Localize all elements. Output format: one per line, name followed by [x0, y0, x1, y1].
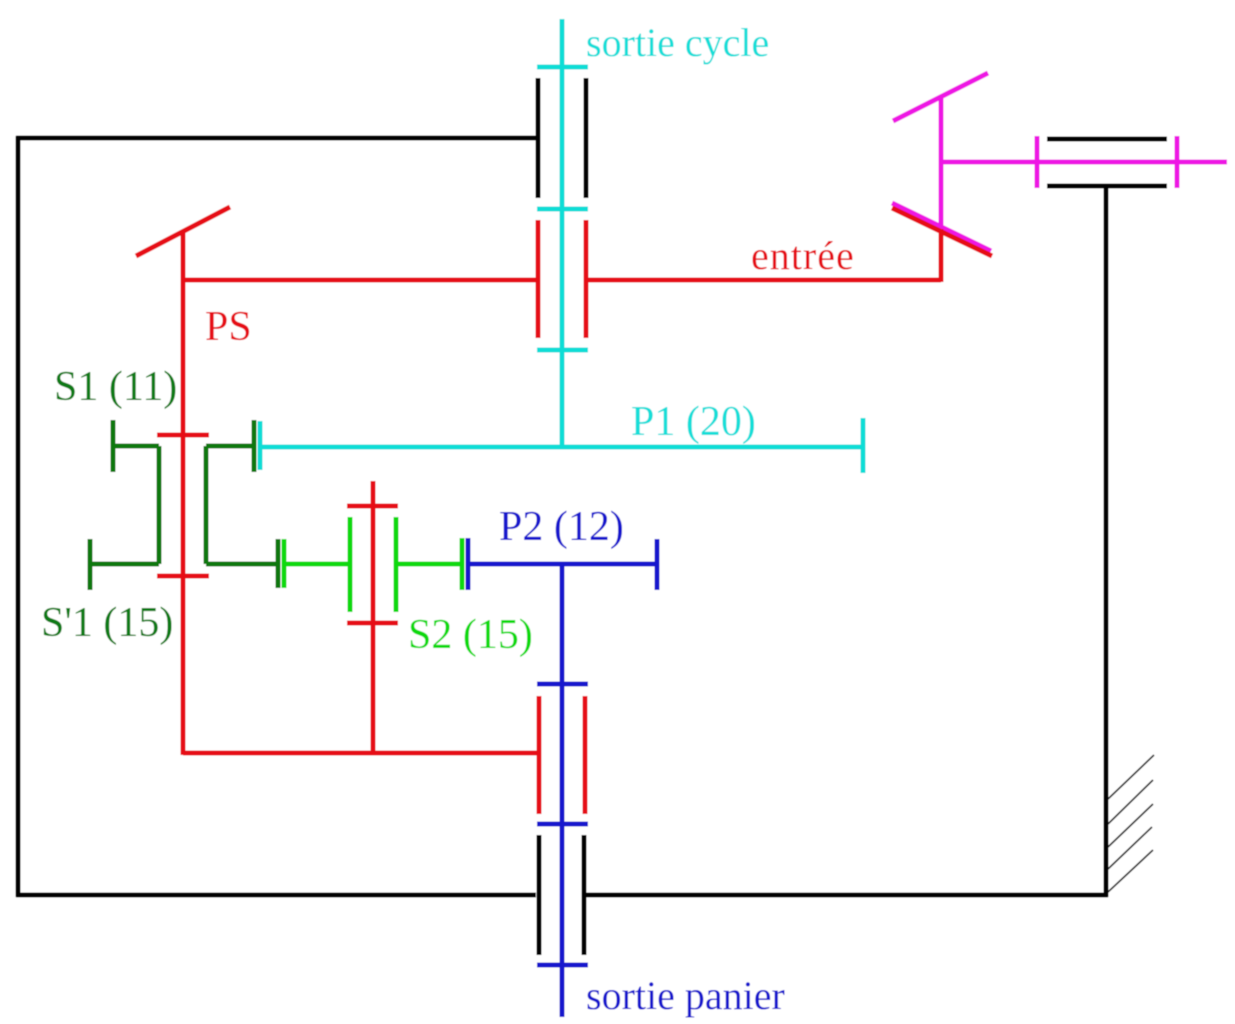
frame housing bottom wall right segment [586, 893, 1108, 898]
PS gear tick upper [157, 433, 209, 438]
red input shaft right segment (clutch to bevel) [586, 278, 941, 283]
shaft sortie panier (blue vertical) [560, 564, 565, 1017]
svg-text:sortie cycle: sortie cycle [586, 20, 769, 65]
red clutch right line on cycle shaft [584, 220, 589, 338]
ring side hub vertical [204, 446, 209, 564]
frame housing top wall [16, 136, 537, 141]
bevel lower slash (red diagonal) [892, 208, 992, 256]
black bearing left line on panier shaft [537, 835, 542, 955]
cyan collar tick middle [537, 207, 588, 212]
planet arm P1 (cyan horizontal) [260, 445, 863, 450]
svg-text:PS: PS [205, 304, 252, 350]
ring side lower tooth tick [276, 539, 281, 588]
frame housing right wall [1104, 186, 1109, 897]
P2 right end tick [655, 539, 660, 590]
ring side S1 upper arm [206, 444, 254, 449]
planet arm P2 (blue horizontal) [468, 562, 657, 567]
red input shaft left segment (PS to clutch) [181, 278, 538, 283]
black bearing right line on cycle shaft [584, 78, 589, 198]
sun gear S'1 tooth tick [88, 539, 93, 590]
bevel shaft tick right (magenta) [1175, 136, 1180, 188]
S2 shaft vertical (red) [371, 481, 376, 755]
S2 shaft tick upper (red) [347, 504, 398, 509]
sun gear S1 upper arm [113, 444, 159, 449]
blue collar tick lower [537, 963, 588, 968]
svg-text:P1 (20): P1 (20) [631, 399, 756, 445]
red clutch left line on panier shaft [537, 696, 542, 814]
black bearing right line on panier shaft [582, 835, 587, 955]
svg-text:P2 (12): P2 (12) [499, 504, 624, 550]
red carrier bottom arm [183, 751, 537, 756]
bevel top slash (magenta diagonal) [893, 73, 988, 121]
bevel shaft tick left (magenta) [1035, 136, 1040, 188]
black bearing left line on cycle shaft [536, 78, 541, 198]
shaft sortie cycle (cyan vertical) [560, 19, 565, 447]
frame housing left wall [16, 136, 21, 897]
PS carrier vertical shaft (red) [181, 233, 186, 755]
red clutch left line on cycle shaft [536, 220, 541, 338]
P1 right end tick [861, 418, 866, 473]
svg-text:entrée: entrée [751, 233, 855, 278]
ring side lower arm [206, 562, 278, 567]
PS gear tick lower [157, 574, 209, 579]
bevel input vertical shaft (magenta) [939, 97, 944, 225]
blue collar tick middle [537, 822, 588, 827]
frame housing bottom wall left segment [16, 893, 536, 898]
cyan collar tick lower [537, 348, 588, 353]
PS bevel slash (red diagonal) [136, 207, 230, 256]
P1 hub tick (cyan) [258, 421, 263, 470]
S2 arm left segment (bright green) [284, 562, 348, 567]
ground hatching [1108, 755, 1154, 892]
ring side S1 tooth tick [252, 420, 257, 472]
bevel lower slash (magenta diagonal) [892, 203, 991, 251]
S2 wheel left line [348, 517, 353, 612]
S2 wheel right line [394, 517, 399, 612]
red clutch right line on panier shaft [583, 696, 588, 814]
svg-text:sortie panier: sortie panier [586, 973, 785, 1018]
S2 hub tick (bright green) [282, 539, 287, 588]
sun gear S1 tooth tick [111, 420, 116, 472]
P2 hub tick (blue) [466, 538, 471, 590]
S2 shaft tick lower (red) [347, 621, 398, 626]
cyan collar tick top [537, 65, 588, 70]
sun gear S1 hub vertical [157, 446, 162, 564]
svg-text:S2 (15): S2 (15) [408, 612, 533, 658]
svg-text:S'1 (15): S'1 (15) [41, 600, 173, 646]
blue collar tick upper [537, 682, 588, 687]
S2 right end tick (bright green) [460, 538, 465, 590]
S2 arm right segment (bright green) [397, 562, 462, 567]
svg-text:S1 (11): S1 (11) [54, 364, 177, 410]
red riser to bevel [939, 229, 944, 282]
bearing box top-right lower plate [1047, 184, 1167, 189]
sun gear S'1 lower arm [90, 562, 159, 567]
bevel horizontal shaft (magenta) [941, 160, 1227, 165]
bearing box top-right upper plate [1047, 137, 1167, 142]
